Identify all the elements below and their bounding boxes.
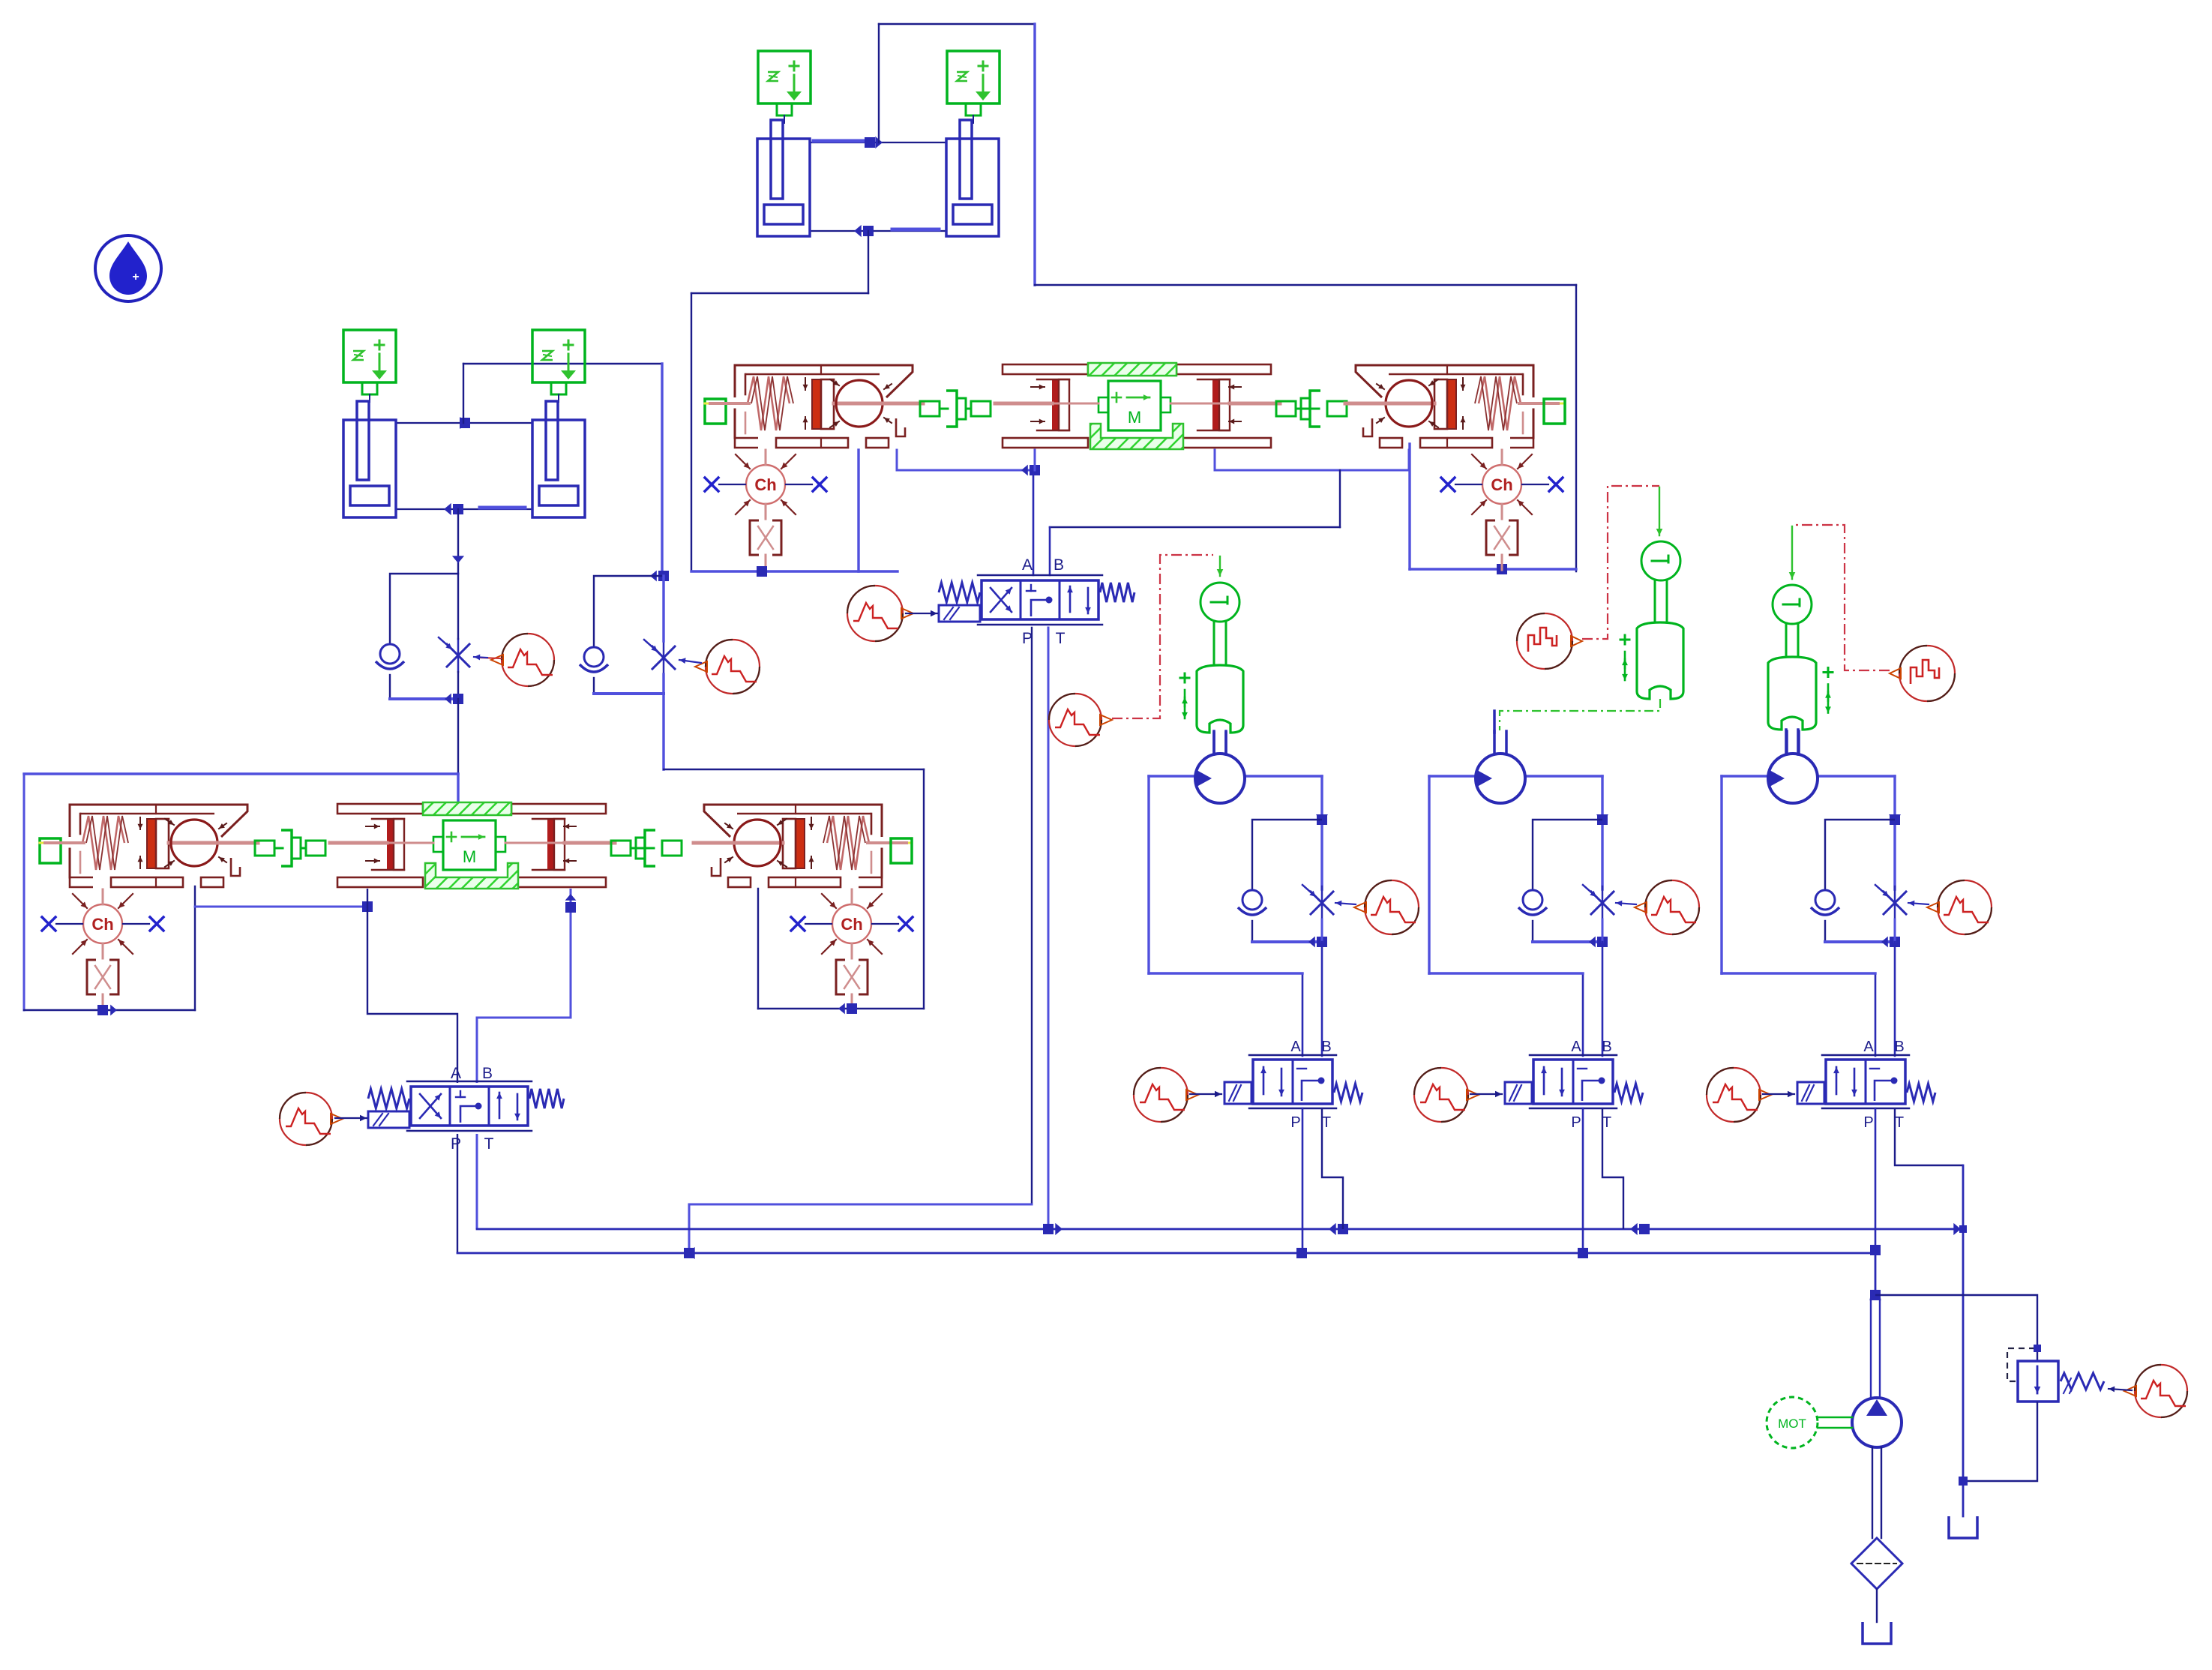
wire left-pair head-side	[396, 508, 532, 509]
green cylinder D2	[1620, 622, 1683, 699]
wire row left port drop	[194, 886, 196, 1010]
svg-text:B: B	[482, 1065, 493, 1082]
svg-text:P: P	[1290, 1114, 1300, 1131]
svg-text:Ch: Ch	[91, 915, 113, 934]
green cylinder D3	[1768, 657, 1833, 730]
wire center-right port top	[1214, 450, 1216, 470]
wire Ch2 line	[1410, 568, 1576, 570]
gauge T1	[1200, 583, 1239, 622]
wire motor branch 1 motor right	[1245, 775, 1322, 777]
wire filter-tank	[1876, 1589, 1878, 1622]
junction pump riser	[1869, 1290, 1881, 1300]
junction Ch2	[1497, 564, 1507, 574]
label A V4	[1863, 1039, 1874, 1055]
wire MOT-pump	[1818, 1417, 1852, 1428]
junction T-rail v2	[1329, 1223, 1348, 1235]
relief valve RV1	[2018, 1361, 2104, 1402]
wire motor branch 3 motor left	[1722, 775, 1768, 777]
valve V5 4/3 proportional	[368, 1081, 564, 1131]
wire row frame right bottom	[758, 1008, 924, 1009]
wire motor branch 3 loop bottom	[1722, 972, 1875, 974]
junction left-pair head-side	[444, 503, 463, 515]
tank T-main	[1863, 1622, 1891, 1644]
wire branch1 mid	[457, 574, 459, 699]
junction branch2 split	[650, 571, 669, 582]
check valve motor branch 3	[1811, 890, 1839, 915]
chamber Ch2	[1441, 450, 1563, 570]
wire B top segment	[1408, 450, 1410, 470]
wire Ch1 line	[691, 570, 898, 572]
wire D3-M3	[1786, 730, 1798, 754]
actuator AL-top	[705, 365, 923, 448]
wire branch2 mid	[662, 576, 664, 694]
wire top-pair head-side line	[810, 229, 946, 231]
wire A-bottom chain	[367, 889, 457, 1083]
check valve CV1	[376, 644, 404, 669]
label V5 A	[451, 1065, 461, 1082]
hydraulic motor M3	[1768, 731, 1818, 803]
wire V1 P drop	[688, 1204, 691, 1253]
wire V1 T down	[1048, 628, 1050, 1229]
wire branch1 down to row	[457, 699, 459, 774]
svg-text:T: T	[1056, 630, 1066, 647]
signal source ramp V3	[1414, 1068, 1479, 1122]
junction T-rail v3	[1630, 1223, 1650, 1235]
wire pump suction	[1872, 1447, 1881, 1538]
chamber Ch4	[791, 889, 913, 1009]
wire T drop v4	[1895, 1108, 1963, 1165]
wire branch2 rejoin	[594, 692, 664, 695]
signal dash G4-gauge1	[1112, 555, 1213, 718]
wire row left jog	[195, 906, 367, 908]
wire motor branch 2 check out	[1532, 921, 1533, 942]
signal source ramp G1	[491, 634, 554, 686]
svg-text:T: T	[1895, 1114, 1904, 1131]
junction Ch3 stem	[97, 1005, 117, 1016]
coupling K1	[920, 391, 991, 427]
junction A top	[1021, 465, 1040, 476]
label T V2	[1322, 1114, 1331, 1131]
relief pilot dash	[2007, 1345, 2041, 1381]
arrow into gauge1	[1217, 556, 1224, 576]
wire left frame drop	[691, 293, 692, 571]
wire motor branch 2 loop right	[1601, 776, 1603, 889]
wire P drop x2111	[1582, 1108, 1584, 1253]
signal source ramp G4	[1049, 694, 1112, 746]
svg-text:P: P	[1863, 1114, 1873, 1131]
wire motor branch 3 A-line	[1875, 973, 1877, 1056]
wire B-bottom chain	[477, 889, 571, 1083]
tank rail	[477, 1228, 1963, 1231]
green cylinder D1	[1180, 665, 1243, 733]
arrow into gauge T3	[1789, 526, 1796, 579]
wire motor branch 2 loop left	[1428, 776, 1430, 973]
label V5 P	[451, 1135, 461, 1153]
mass assembly M1	[995, 363, 1280, 449]
throttle valve motor branch 2	[1583, 885, 1614, 919]
wire left-pair riser	[463, 364, 464, 423]
svg-text:B: B	[1602, 1039, 1611, 1055]
wire right branch drop	[661, 364, 663, 576]
wire motor branch 2 motor left	[1429, 775, 1476, 777]
svg-text:B: B	[1321, 1039, 1331, 1055]
wire branch2 split	[594, 576, 664, 646]
junction row left	[362, 901, 373, 913]
svg-text:A: A	[1290, 1039, 1301, 1055]
junction motor branch 2 lower	[1589, 937, 1608, 948]
junction top-pair rod-side	[865, 136, 883, 148]
svg-text:T: T	[484, 1135, 494, 1153]
label V1 T	[1056, 630, 1066, 647]
signal dash G5-T2	[1582, 486, 1659, 639]
signal source ramp V4	[1707, 1068, 1771, 1122]
wire T drop x1763	[1322, 1108, 1343, 1229]
wire motor branch 2 motor right	[1525, 775, 1602, 777]
wire top horizontal	[879, 23, 1035, 25]
signal wire G7-V5	[335, 1115, 367, 1122]
svg-text:T: T	[1602, 1114, 1611, 1131]
wire row-right frame drop	[923, 769, 925, 1009]
wire B drop	[1339, 470, 1341, 527]
wire into center port	[457, 774, 459, 804]
valve V2 directional	[1224, 1055, 1362, 1108]
wire motor branch 3 check out	[1824, 921, 1826, 942]
pump PU1	[1852, 1398, 1902, 1447]
svg-text:B: B	[1894, 1039, 1904, 1055]
pressure rail	[457, 1252, 1875, 1255]
signal wire V4	[1763, 1091, 1794, 1098]
junction Ch4 stem	[838, 1003, 857, 1015]
hydraulic motor M2	[1476, 731, 1525, 803]
wire motor branch 2 rejoin	[1533, 940, 1602, 943]
cylinder C3	[343, 401, 396, 517]
signal wire throttle motor branch 1	[1335, 901, 1356, 907]
wire row right port drop	[757, 889, 759, 1009]
svg-text:A: A	[451, 1065, 461, 1082]
signal source step G5	[1517, 613, 1582, 669]
actuator AL-bottom	[40, 805, 258, 887]
wire B horizontal1	[1215, 469, 1409, 472]
wire P drop x1737	[1302, 1108, 1304, 1253]
wire branch1 drop	[452, 509, 464, 574]
junction P-rail left	[684, 1247, 695, 1259]
throttle valve motor branch 3	[1875, 885, 1906, 919]
wire motor branch 2 B-line	[1602, 919, 1604, 1056]
wire B horizontal2	[1050, 526, 1340, 528]
tank T-aux	[1949, 1516, 1977, 1538]
valve V1 4/3 proportional	[939, 575, 1134, 625]
wire A top segment	[896, 450, 898, 470]
cylinder C2	[946, 120, 999, 236]
chamber Ch3	[42, 889, 163, 1009]
wire T drop x2137	[1602, 1108, 1623, 1229]
wire motor branch 1 check out	[1251, 921, 1253, 942]
label V1 P	[1022, 630, 1033, 647]
junction B-bottom	[565, 894, 577, 913]
svg-text:B: B	[1054, 556, 1064, 574]
signal wire V3	[1470, 1091, 1502, 1098]
junction tank rail end	[1953, 1223, 1967, 1235]
svg-text:P: P	[451, 1135, 461, 1153]
junction relief out	[1959, 1477, 1968, 1486]
wire branch2 to right frame	[664, 769, 924, 770]
signal wire throttle motor branch 2	[1616, 901, 1636, 907]
wire branch1 rejoin	[390, 697, 458, 700]
wire head-side drop	[868, 231, 869, 293]
arrow into gauge T2	[1656, 487, 1663, 535]
valve V3 directional	[1505, 1055, 1643, 1108]
wire motor branch 1 B-line	[1321, 919, 1323, 1056]
wire motor branch 1 loop bottom	[1149, 972, 1302, 974]
valve V4 directional	[1797, 1055, 1935, 1108]
signal wire G2-RO2	[679, 658, 701, 664]
wire motor branch 3 check branch	[1825, 820, 1895, 889]
wire top-pair rod-side line	[810, 141, 946, 142]
wire V5 P down	[457, 1134, 458, 1253]
wire A down to valve	[1033, 470, 1035, 575]
wire act-top-left port	[857, 450, 859, 571]
green port P1	[705, 399, 726, 424]
signal source ramp motor branch 1	[1354, 880, 1419, 934]
signal wire G3-V1	[906, 610, 937, 617]
junction motor branch 2 upper	[1596, 814, 1608, 825]
chamber Ch1	[705, 450, 826, 570]
wire relief out	[1963, 1402, 2037, 1481]
junction motor branch 3 lower	[1881, 937, 1900, 948]
check valve CV2	[580, 647, 608, 672]
wire down right of top pair	[1033, 24, 1036, 285]
wire V5 T down	[476, 1134, 478, 1229]
signal wire throttle motor branch 3	[1908, 901, 1929, 907]
green port P4	[891, 838, 912, 863]
label B V3	[1602, 1039, 1611, 1055]
label P V2	[1290, 1114, 1300, 1131]
wire relief supply	[1875, 1295, 2037, 1361]
filter F1	[1851, 1538, 1902, 1589]
junction motor branch 1 lower	[1308, 937, 1327, 948]
gauge T3 stem	[1786, 623, 1798, 657]
wire branch1 split	[390, 574, 458, 643]
label A V3	[1571, 1039, 1581, 1055]
wire left-pair top horizontal	[463, 363, 662, 364]
wire row frame left vert	[23, 774, 25, 1010]
svg-text:P: P	[1571, 1114, 1581, 1131]
wire D1-M1	[1214, 733, 1226, 754]
svg-text:A: A	[1863, 1039, 1874, 1055]
position sensor S1	[758, 51, 811, 123]
svg-text:A: A	[1571, 1039, 1581, 1055]
wire B down to valve	[1049, 527, 1051, 575]
svg-text:Ch: Ch	[1491, 475, 1512, 494]
motor MOT	[1767, 1397, 1818, 1448]
junction motor branch 3 upper	[1889, 814, 1901, 825]
actuator AR-top	[1345, 365, 1563, 448]
green port P3	[40, 838, 61, 863]
wire motor branch 2 check branch	[1533, 820, 1602, 889]
throttle valve motor branch 1	[1302, 885, 1333, 919]
coupling K2	[1276, 391, 1347, 427]
wire motor branch 1 motor left	[1149, 775, 1195, 777]
svg-text:M: M	[463, 847, 476, 866]
signal source ramp G8	[2124, 1365, 2187, 1417]
position sensor S3	[343, 330, 396, 402]
svg-text:M: M	[1128, 408, 1141, 427]
fluid properties icon	[95, 235, 161, 301]
coupling K4	[611, 830, 682, 866]
label A V2	[1290, 1039, 1301, 1055]
signal wire G8-RV1	[2109, 1387, 2132, 1393]
wire center-left port top	[1034, 450, 1036, 470]
wire motor branch 2 A-line	[1582, 973, 1584, 1056]
throttle valve RO1	[439, 637, 469, 672]
junction Ch1	[757, 566, 767, 577]
wire act-top-right port	[1408, 444, 1410, 569]
cylinder C4	[532, 401, 585, 517]
actuator AR-bottom	[694, 805, 912, 887]
label B V4	[1894, 1039, 1904, 1055]
wire branch1 check out	[389, 675, 391, 699]
wire tank drop right	[1962, 1165, 1965, 1516]
label V5 T	[484, 1135, 494, 1153]
wire V1 P jog	[689, 1204, 1032, 1206]
throttle valve RO2	[644, 640, 675, 674]
wire right frame drop	[1575, 285, 1577, 571]
mass assembly M2	[330, 802, 615, 889]
label B V2	[1321, 1039, 1331, 1055]
coupling K3	[255, 830, 325, 866]
signal source ramp G2	[695, 640, 760, 694]
position sensor S4	[532, 330, 585, 402]
wire pump riser	[1871, 1250, 1880, 1398]
label V1 A	[1022, 556, 1033, 574]
gauge T1 stem	[1214, 622, 1226, 665]
junction P-rail v2	[1296, 1248, 1307, 1258]
wire stem M2	[1493, 711, 1496, 733]
svg-text:Ch: Ch	[841, 915, 862, 934]
wire left-pair rod-side	[396, 422, 532, 424]
signal source ramp G7	[280, 1093, 343, 1145]
junction T-rail v1	[1043, 1223, 1063, 1235]
svg-text:Ch: Ch	[754, 475, 776, 494]
wire V1 P down	[1031, 628, 1033, 1204]
wire motor branch 1 loop left	[1147, 776, 1149, 973]
wire motor branch 3 B-line	[1894, 919, 1896, 1056]
label P V3	[1571, 1114, 1581, 1131]
signal source step G6	[1890, 646, 1955, 701]
wire branch2 down	[662, 694, 664, 769]
svg-text:MOT: MOT	[1778, 1417, 1806, 1431]
wire A horizontal	[897, 469, 1035, 472]
wire motor branch 1 loop right	[1320, 776, 1323, 889]
wire motor branch 3 motor right	[1818, 775, 1895, 777]
junction motor branch 1 upper	[1316, 814, 1328, 825]
junction left-pair rod-side	[460, 417, 470, 429]
wire across to right frame	[1035, 284, 1576, 286]
signal source ramp motor branch 3	[1927, 880, 1992, 934]
signal dash D2-M2	[1500, 699, 1660, 730]
wire motor branch 1 rejoin	[1252, 940, 1322, 943]
signal source ramp V2	[1134, 1068, 1198, 1122]
wire P drop pump riser upper	[1875, 1108, 1877, 1250]
svg-text:A: A	[1022, 556, 1033, 574]
cylinder C1	[757, 120, 810, 236]
label T V4	[1895, 1114, 1904, 1131]
signal wire V2	[1190, 1091, 1221, 1098]
wire motor branch 2 loop bottom	[1429, 972, 1583, 974]
wire riser from rod-side junction	[878, 24, 880, 142]
wire motor branch 1 A-line	[1302, 973, 1304, 1056]
label V1 B	[1054, 556, 1064, 574]
svg-text:T: T	[1322, 1114, 1331, 1131]
junction P-rail pump	[1870, 1245, 1881, 1255]
wire motor branch 3 loop left	[1720, 776, 1722, 973]
wire branch2 check out	[593, 678, 595, 694]
gauge T3	[1773, 585, 1812, 624]
wire row-left top link	[24, 772, 458, 775]
junction P-rail v3	[1578, 1248, 1588, 1258]
signal source ramp motor branch 2	[1635, 880, 1699, 934]
wire head-side jog left	[691, 292, 868, 294]
position sensor S2	[947, 51, 1000, 123]
signal dash G6-T3	[1794, 525, 1890, 670]
label P V4	[1863, 1114, 1873, 1131]
signal wire G1-RO1	[474, 655, 501, 661]
label V5 B	[482, 1065, 493, 1082]
junction top-pair head-side	[854, 225, 874, 237]
gauge T2 stem	[1655, 580, 1667, 622]
wire motor branch 3 rejoin	[1825, 940, 1895, 943]
check valve motor branch 2	[1518, 890, 1547, 915]
signal source ramp G3	[847, 586, 913, 641]
junction branch1 out	[445, 694, 463, 705]
wire motor branch 1 check branch	[1252, 820, 1322, 889]
check valve motor branch 1	[1238, 890, 1266, 915]
wire row frame left bottom	[24, 1009, 195, 1011]
hydraulic motor M1	[1195, 731, 1245, 803]
svg-text:+: +	[132, 271, 139, 283]
label T V3	[1602, 1114, 1611, 1131]
green port P2	[1544, 399, 1565, 424]
wire motor branch 3 loop right	[1893, 776, 1896, 889]
gauge T2	[1641, 541, 1680, 580]
